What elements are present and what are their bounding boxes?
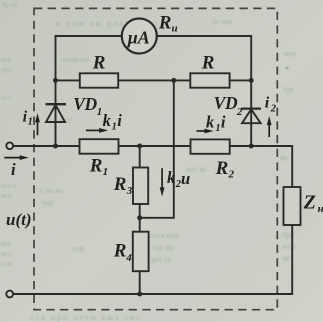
current arrow k1i (left) [86,128,108,133]
wire: left vertical through VD1 [55,35,57,146]
label VD2 [214,93,243,118]
svg-text:цепи он: цепи он [62,55,89,64]
resistor R (left top) [80,73,118,87]
current arrow i (input) [4,155,28,160]
resistor R1 [80,139,119,154]
svg-text:вор: вор [1,56,12,64]
label Rи (meter resistance) [158,12,178,34]
svg-text:i: i [117,111,122,130]
svg-text:R: R [201,53,215,74]
node: R4 / bottom return [137,292,142,297]
current arrow k1i (right) [197,129,214,134]
svg-text:k: k [206,112,215,131]
label VD1 [73,94,102,118]
svg-text:i: i [11,160,16,179]
svg-text:Z: Z [303,191,316,213]
resistor R2 [191,139,230,153]
current arrow i1 [35,113,40,135]
node: R3/R4 junction [137,215,142,220]
svg-text:3: 3 [126,185,133,197]
label k2u [167,168,190,190]
label k1i (right) [206,112,226,134]
svg-text:ие: ие [282,254,290,263]
svg-text:i: i [265,95,270,112]
svg-text:1: 1 [103,166,109,178]
svg-text:ется нап: ется нап [150,231,179,240]
node: right vertical / R row [249,78,254,83]
load impedance Zн [284,187,301,225]
dashed two-port boundary box [34,8,277,309]
label R4 [113,241,133,264]
svg-text:k: k [103,111,112,130]
svg-text:1: 1 [112,121,117,132]
svg-text:зе низ: зе низ [212,17,232,26]
svg-text:ося: ося [72,244,84,253]
svg-text:лтр: лтр [1,66,12,74]
microammeter with internal resistance [122,19,157,54]
svg-text:u(t): u(t) [6,210,32,229]
resistor R (right top) [190,73,229,87]
svg-text:жен: жен [281,242,296,251]
svg-text:2: 2 [236,106,243,118]
label i2 [265,95,277,115]
svg-text:№ по: № по [2,1,18,9]
svg-text:вои: вои [284,49,297,58]
svg-text:тор вы: тор вы [152,243,175,252]
node: mid vertical / R row [171,78,176,83]
label R1 [89,155,108,178]
svg-text:VD: VD [73,94,97,114]
svg-text:ост: ост [1,94,11,102]
svg-text:4: 4 [125,252,132,264]
svg-text:нет и: нет и [1,182,17,190]
resistor R4 [133,232,149,272]
input terminal (top) [6,142,13,149]
svg-text:μA: μA [127,27,150,47]
svg-text:вел: вел [1,250,11,258]
svg-text:R: R [113,241,127,262]
wire: R row horizontal [56,79,252,81]
diode VD2 [241,109,261,124]
svg-text:1: 1 [97,106,103,118]
svg-text:тся при отом вых сиг: тся при отом вых сиг [30,313,142,322]
wire: R3/R4 vertical branch [139,146,141,294]
label R3 [113,174,133,197]
wire: input row horizontal [13,145,251,147]
svg-text:R: R [89,155,103,176]
svg-text:дит ся: дит ся [150,255,171,264]
node: left vertical / R row [53,78,58,83]
svg-text:1: 1 [28,117,33,128]
wire: right vertical through VD2 [250,80,252,146]
svg-text:R: R [158,12,172,33]
label i1 [23,109,33,128]
svg-text:k: k [167,168,176,187]
wire: dependent-source branch (mid vertical with bend to R3/R4 node) [139,80,174,217]
current arrow i2 [267,116,272,137]
svg-text:вк: вк [280,153,288,162]
svg-text:ати: ати [1,240,11,248]
diode VD1 [46,104,67,122]
svg-text:R: R [113,174,127,195]
svg-text:н: н [318,203,323,215]
input terminal (bottom) [6,291,13,298]
node: left vertical / input row [53,144,58,149]
svg-text:u: u [181,169,190,188]
svg-text:т на вх: т на вх [40,186,63,195]
wire: meter row right segment [157,35,251,37]
svg-text:VD: VD [214,93,238,113]
node: right vertical / input row [249,144,254,149]
svg-text:и: и [172,23,178,35]
svg-text:R: R [92,53,106,74]
wire: output loop through load and bottom return [13,146,292,294]
label k1i (left) [103,111,123,132]
arrow k2u (controlled source quantity) [160,168,165,196]
svg-text:ной: ной [1,260,12,268]
svg-text:i: i [221,112,226,131]
label Zн [303,191,323,214]
node: R3 top / input row [137,144,142,149]
wire: right vertical from meter row to R row [250,35,252,80]
wire: meter row left segment [56,35,122,37]
svg-text:тре: тре [283,85,295,94]
svg-text:вод: вод [42,198,54,207]
svg-text:2: 2 [228,169,235,181]
svg-text:R: R [215,158,229,179]
resistor R3 [133,168,148,205]
label R2 [215,158,235,180]
svg-text:1: 1 [215,123,220,134]
svg-text:2: 2 [270,104,277,115]
svg-text:мыс: мыс [1,192,13,200]
